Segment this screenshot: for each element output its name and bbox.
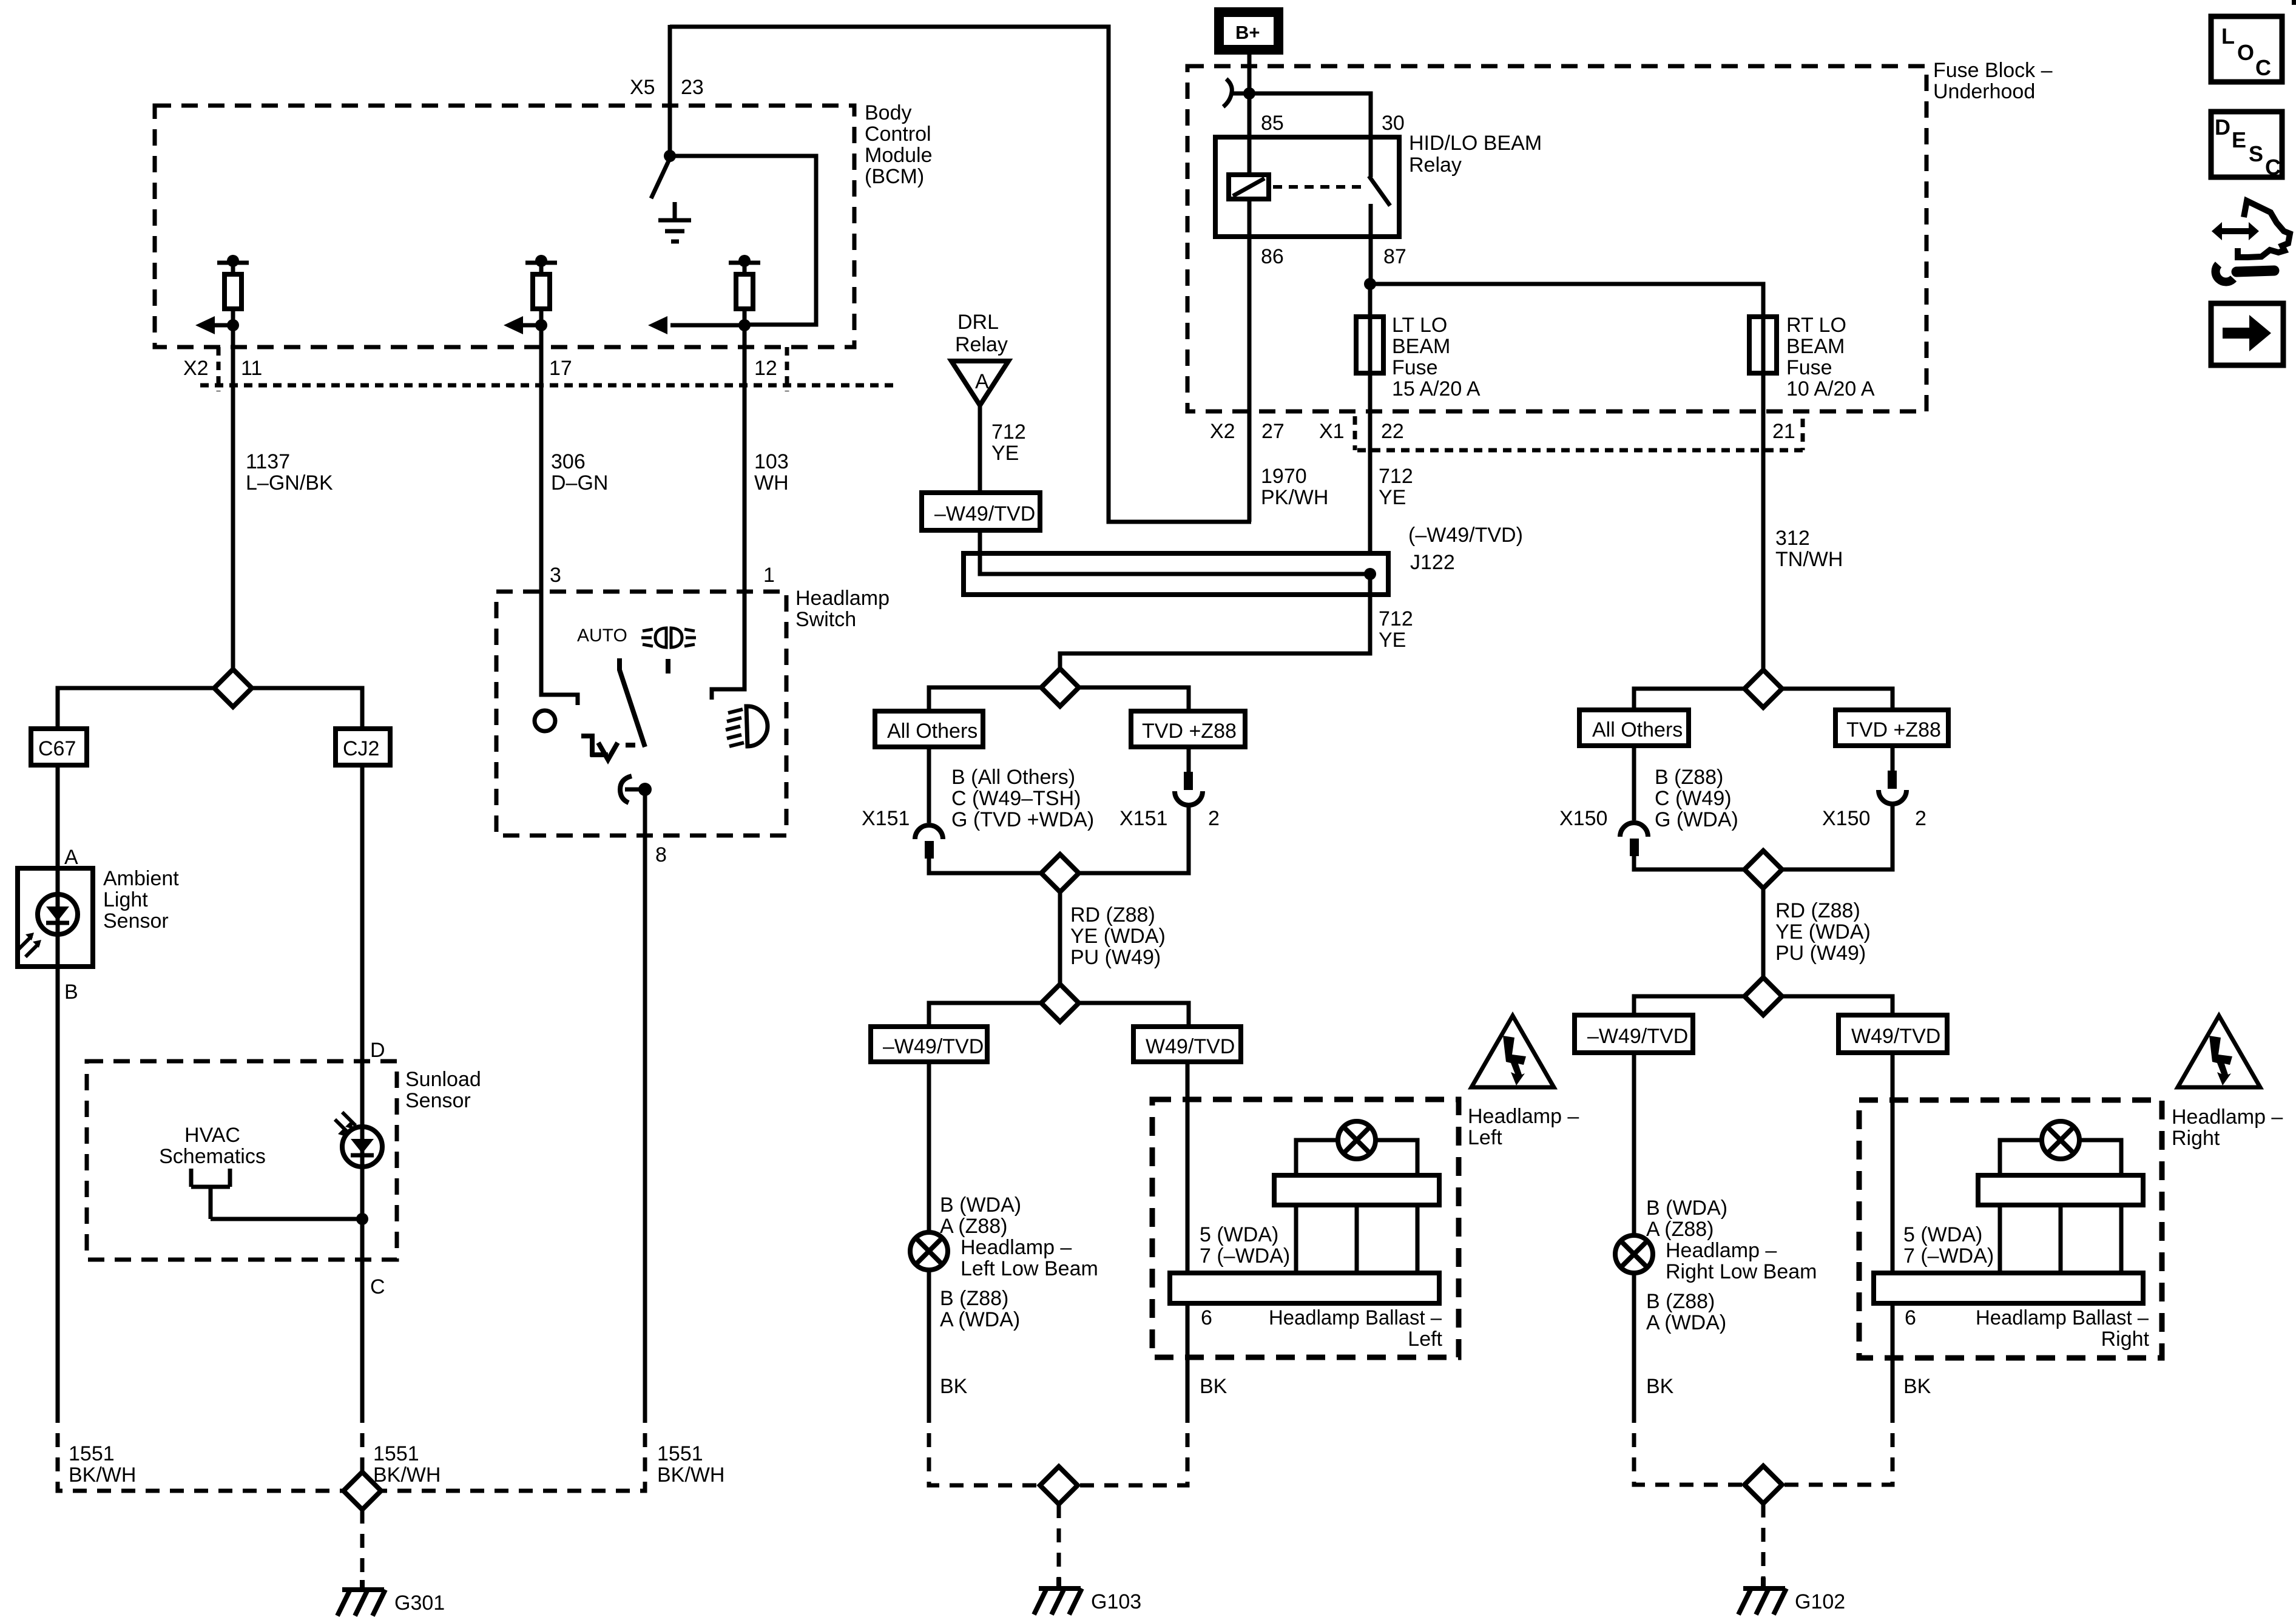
wire ambient sensor down 1551 (56, 967, 60, 1409)
splice diamond left top (1041, 669, 1079, 706)
wire B+ lead (1248, 55, 1252, 137)
svg-text:B+: B+ (1235, 22, 1260, 43)
relay HID/LO BEAM box (1215, 137, 1399, 237)
svg-text:A: A (64, 846, 78, 869)
node 87 branch (1364, 278, 1376, 290)
ballast right top bar (1978, 1175, 2143, 1205)
ballast right legs (2000, 1205, 2121, 1273)
wire diamond to diamond L (1058, 892, 1062, 984)
resistor BCM driver pin 12 (729, 255, 760, 325)
svg-text:PU (W49): PU (W49) (1775, 942, 1866, 965)
lamp headlamp right low beam (1615, 1235, 1653, 1273)
wire 87 to LT fuse (1368, 284, 1373, 317)
svg-text:Sunload: Sunload (405, 1068, 481, 1091)
svg-text:D: D (2215, 115, 2230, 140)
wire LT fuse out 712 (1368, 373, 1373, 575)
connector X151 G inline (915, 747, 1041, 873)
wire DRL 712 YE (978, 405, 982, 493)
splice diamond G102 (1744, 1466, 1782, 1504)
node J122 junction (1364, 568, 1376, 580)
svg-text:C (W49–TSH): C (W49–TSH) (951, 787, 1081, 810)
svg-text:1970: 1970 (1261, 465, 1307, 488)
wire ballast right pin 6 (1891, 1303, 1895, 1409)
wire relay 87 output (1369, 237, 1373, 284)
svg-text:BEAM: BEAM (1786, 335, 1845, 358)
svg-text:X150: X150 (1559, 807, 1607, 830)
svg-text:G301: G301 (394, 1592, 445, 1615)
svg-text:LT LO: LT LO (1392, 314, 1447, 337)
svg-text:27: 27 (1261, 420, 1285, 443)
icon headlamps-on (641, 628, 696, 673)
svg-text:YE (WDA): YE (WDA) (1775, 920, 1871, 944)
svg-text:(BCM): (BCM) (865, 165, 924, 188)
svg-text:G102: G102 (1795, 1590, 1845, 1613)
svg-text:22: 22 (1381, 420, 1404, 443)
wire to C67 (58, 688, 214, 729)
svg-text:306: 306 (551, 450, 586, 473)
svg-text:Headlamp Ballast –: Headlamp Ballast – (1976, 1306, 2149, 1329)
svg-text:BK: BK (1903, 1375, 1931, 1398)
splice diamond left mid (1041, 854, 1079, 892)
svg-text:E: E (2232, 127, 2246, 152)
wire RT fuse out 312 (1761, 373, 1766, 670)
svg-text:1: 1 (763, 564, 775, 587)
svg-text:B: B (64, 981, 78, 1004)
svg-text:C: C (2265, 155, 2281, 180)
resistor BCM driver pin 17 (525, 255, 557, 325)
svg-text:DRL: DRL (957, 311, 999, 334)
fuse LT LO BEAM (1356, 317, 1383, 373)
wire G102 net lamp drop (1634, 1409, 1744, 1485)
wire G301 net ambient drop (58, 1409, 343, 1491)
wire G103 net lamp drop (929, 1409, 1040, 1485)
svg-text:Headlamp –: Headlamp – (1468, 1105, 1579, 1128)
wire G301 net sunload drop (360, 1409, 365, 1472)
ballast left bottom bar (1170, 1273, 1439, 1303)
wire G102 net ballast drop (1782, 1409, 1893, 1485)
svg-text:YE (WDA): YE (WDA) (1070, 925, 1166, 948)
svg-text:BK: BK (1646, 1375, 1674, 1398)
svg-text:87: 87 (1383, 245, 1406, 268)
svg-text:Switch: Switch (795, 608, 856, 631)
icon low beam (726, 706, 768, 746)
resistor BCM driver pin 11 (217, 255, 249, 325)
svg-text:D: D (370, 1039, 385, 1062)
svg-text:Fuse: Fuse (1392, 356, 1438, 379)
svg-text:7 (–WDA): 7 (–WDA) (1200, 1244, 1290, 1268)
svg-text:Left: Left (1408, 1328, 1442, 1351)
wire G301 tail (360, 1510, 365, 1580)
wire -W49/TVD to right low beam lamp (1632, 1053, 1636, 1235)
splice diamond left lower (1041, 984, 1079, 1022)
svg-text:Headlamp –: Headlamp – (961, 1236, 1072, 1259)
ground BCM internal (658, 202, 691, 241)
svg-text:Schematics: Schematics (159, 1145, 266, 1168)
fuse block cavity hook (1223, 79, 1232, 107)
connector X150 G inline (1620, 746, 1744, 869)
icon DESC box (2211, 112, 2282, 180)
svg-text:BK/WH: BK/WH (373, 1463, 441, 1487)
svg-text:X1: X1 (1319, 420, 1345, 443)
svg-text:11: 11 (241, 357, 262, 380)
headlamp switch dashed box (496, 592, 786, 836)
wire to All Others R (1634, 689, 1744, 710)
ballast left lamp (1338, 1121, 1376, 1159)
svg-text:21: 21 (1772, 420, 1795, 443)
svg-text:Right: Right (2172, 1127, 2220, 1150)
box W49/TVD R (1838, 1015, 1947, 1053)
svg-text:1137: 1137 (246, 450, 290, 473)
svg-text:Underhood: Underhood (1933, 80, 2035, 103)
svg-text:AUTO: AUTO (577, 626, 627, 646)
svg-text:S: S (2249, 141, 2263, 166)
ballast right lamp (2042, 1121, 2079, 1159)
headlamp right dashed box (1859, 1100, 2162, 1358)
svg-text:B (Z88): B (Z88) (1655, 766, 1723, 789)
box -W49/TVD R (1575, 1015, 1693, 1053)
svg-text:A (WDA): A (WDA) (940, 1308, 1020, 1331)
svg-text:YE: YE (991, 442, 1019, 465)
box -W49/TVD L (871, 1027, 987, 1062)
node sunload junction (356, 1213, 368, 1225)
wire 712 YE to left headlamp circuit (1060, 574, 1370, 670)
svg-text:Body: Body (865, 101, 912, 124)
svg-text:L: L (2221, 24, 2235, 49)
wire to -W49/TVD R (1634, 996, 1744, 1015)
svg-text:Sensor: Sensor (103, 910, 169, 933)
ambient light sensor box (18, 868, 93, 967)
svg-text:5 (WDA): 5 (WDA) (1903, 1223, 1982, 1246)
svg-text:B (All Others): B (All Others) (951, 766, 1075, 789)
svg-text:712: 712 (1379, 607, 1413, 630)
svg-text:1551: 1551 (657, 1442, 703, 1465)
svg-text:C67: C67 (38, 737, 76, 760)
box W49/TVD L (1133, 1027, 1241, 1062)
ballast left lamp frame (1296, 1140, 1417, 1175)
svg-text:103: 103 (754, 450, 789, 473)
svg-text:23: 23 (681, 76, 704, 99)
splice diamond G301 (343, 1472, 381, 1510)
box -W49/TVD DRL (922, 493, 1040, 530)
wire hook to common (625, 788, 645, 792)
svg-text:A (Z88): A (Z88) (1646, 1218, 1714, 1241)
icon park lamps position (581, 734, 635, 760)
box TVD +Z88 R (1835, 710, 1948, 746)
connector X150 2 inline (1782, 746, 1906, 869)
warning triangle left (1471, 1016, 1554, 1087)
svg-text:312: 312 (1775, 527, 1810, 550)
svg-text:TVD +Z88: TVD +Z88 (1142, 720, 1237, 743)
relay coil-contact dashed link (1273, 185, 1365, 189)
svg-text:G (TVD +WDA): G (TVD +WDA) (951, 808, 1094, 831)
wire ballast left pin 6 (1186, 1303, 1190, 1409)
svg-text:712: 712 (1379, 465, 1413, 488)
wire -W49/TVD to left low beam lamp (927, 1062, 931, 1232)
node pin 11 junction with arrow (195, 316, 239, 334)
svg-text:3: 3 (550, 564, 561, 587)
splice diamond right lower (1744, 977, 1782, 1015)
svg-text:O: O (2237, 40, 2254, 65)
svg-text:–W49/TVD: –W49/TVD (883, 1035, 984, 1058)
svg-text:A: A (975, 370, 989, 393)
switch pin 3 contact (541, 592, 578, 705)
switch common spring hook (620, 776, 632, 803)
svg-text:YE: YE (1379, 629, 1406, 652)
svg-text:TN/WH: TN/WH (1775, 548, 1843, 571)
svg-text:B (WDA): B (WDA) (1646, 1197, 1727, 1220)
svg-text:RT LO: RT LO (1786, 314, 1846, 337)
photodiode sunload (335, 1112, 382, 1167)
svg-text:Right Low Beam: Right Low Beam (1666, 1260, 1817, 1283)
photodiode ambient (18, 868, 78, 967)
svg-text:C (W49): C (W49) (1655, 787, 1732, 810)
svg-text:(–W49/TVD): (–W49/TVD) (1408, 524, 1523, 547)
wire 306 D-GN (539, 325, 544, 592)
svg-text:RD (Z88): RD (Z88) (1070, 903, 1155, 927)
svg-text:RD (Z88): RD (Z88) (1775, 899, 1860, 922)
svg-text:D–GN: D–GN (551, 471, 608, 495)
wire lamp BK down (927, 1270, 931, 1409)
sunload sensor dashed box (87, 1061, 397, 1260)
svg-text:G103: G103 (1091, 1590, 1141, 1613)
svg-text:B (Z88): B (Z88) (940, 1287, 1008, 1310)
svg-text:X5: X5 (630, 76, 655, 99)
svg-text:6: 6 (1201, 1306, 1212, 1329)
wire G103 tail (1057, 1504, 1061, 1578)
svg-text:Relay: Relay (1409, 154, 1462, 177)
splice diamond G103 (1040, 1467, 1078, 1504)
HVAC schematics reference (191, 1169, 362, 1219)
node pin 17 junction with arrow (504, 316, 547, 334)
node pin 12 junction with arrow (648, 316, 751, 334)
svg-text:A (WDA): A (WDA) (1646, 1311, 1726, 1334)
svg-text:12: 12 (754, 357, 777, 380)
warning triangle right (2178, 1016, 2260, 1087)
svg-text:Headlamp: Headlamp (795, 587, 890, 610)
svg-text:Light: Light (103, 888, 148, 911)
splice pack J122 (964, 553, 1388, 595)
svg-text:PK/WH: PK/WH (1261, 486, 1328, 509)
svg-text:30: 30 (1382, 112, 1405, 135)
wire 87 to RT fuse (1370, 284, 1763, 317)
svg-text:Module: Module (865, 144, 933, 167)
ground G102 (1738, 1578, 1845, 1615)
BCM ground switch arm (651, 160, 669, 198)
svg-text:85: 85 (1261, 112, 1284, 135)
wire to W49/TVD L (1079, 1003, 1189, 1027)
svg-text:10 A/20 A: 10 A/20 A (1786, 377, 1875, 400)
svg-text:7 (–WDA): 7 (–WDA) (1903, 1244, 1994, 1268)
svg-text:8: 8 (655, 843, 667, 866)
svg-text:6: 6 (1905, 1306, 1916, 1329)
page corner mark (2292, 0, 2296, 5)
svg-text:1551: 1551 (69, 1442, 115, 1465)
svg-text:X151: X151 (862, 807, 910, 830)
box TVD +Z88 L (1131, 711, 1245, 747)
wire to W49/TVD R (1782, 996, 1893, 1015)
splice diamond sensors feed (214, 669, 252, 707)
node B+ tap (1243, 87, 1255, 100)
svg-text:Relay: Relay (955, 333, 1008, 356)
svg-text:A (Z88): A (Z88) (940, 1215, 1007, 1238)
svg-text:Headlamp –: Headlamp – (1666, 1239, 1777, 1262)
node BCM internal junction (664, 150, 676, 162)
ground G103 (1034, 1578, 1141, 1615)
fuse RT LO BEAM (1749, 317, 1777, 373)
fuse block underhood dashed box (1187, 66, 1926, 411)
svg-text:1551: 1551 (373, 1442, 419, 1465)
svg-text:Fuse: Fuse (1786, 356, 1832, 379)
svg-text:BK/WH: BK/WH (657, 1463, 724, 1487)
ballast left legs (1296, 1205, 1417, 1273)
svg-text:BK: BK (940, 1375, 968, 1398)
relay DRL triangle (951, 361, 1008, 405)
lamp headlamp left low beam (910, 1232, 948, 1270)
svg-text:CJ2: CJ2 (343, 737, 379, 760)
svg-text:Ambient: Ambient (103, 867, 179, 890)
svg-text:X150: X150 (1822, 807, 1870, 830)
wire G301 net switch drop (381, 1409, 645, 1491)
wire lamp BK down R (1632, 1273, 1636, 1409)
svg-text:B (WDA): B (WDA) (940, 1193, 1021, 1217)
svg-text:X2: X2 (1210, 420, 1235, 443)
wire 1137 L-GN/BK (231, 325, 235, 670)
ballast right bottom bar (1874, 1273, 2143, 1303)
box C67 (31, 729, 87, 765)
wire BCM pin 23 drop (668, 25, 672, 157)
svg-text:B (Z88): B (Z88) (1646, 1290, 1715, 1313)
switch pin 1 contact (712, 592, 745, 700)
connector X151 2 inline (1079, 747, 1203, 873)
svg-text:BK: BK (1200, 1375, 1227, 1398)
headlamp left dashed box (1152, 1099, 1459, 1357)
svg-text:All Others: All Others (887, 720, 977, 743)
svg-text:TVD +Z88: TVD +Z88 (1846, 718, 1941, 741)
wire diamond to diamond R (1761, 888, 1766, 977)
node switch common (638, 783, 652, 796)
connector X1 dashed line (1357, 448, 1805, 453)
wire relay 86 output 1970 (1248, 237, 1252, 522)
relay contact (1369, 137, 1390, 237)
wire to -W49/TVD L (929, 1003, 1041, 1027)
box All Others R (1579, 710, 1689, 746)
relay coil (1229, 137, 1269, 237)
svg-text:712: 712 (991, 420, 1026, 444)
connector X1 separator ticks (1355, 416, 1803, 450)
svg-text:BEAM: BEAM (1392, 335, 1450, 358)
svg-text:C: C (370, 1275, 385, 1298)
wire switch pin 8 output (643, 789, 647, 1409)
svg-text:X151: X151 (1119, 807, 1167, 830)
ground G301 (337, 1580, 445, 1616)
switch OFF position O (535, 711, 555, 731)
svg-text:C: C (2255, 55, 2271, 80)
svg-text:5 (WDA): 5 (WDA) (1200, 1223, 1278, 1246)
svg-text:–W49/TVD: –W49/TVD (934, 502, 1035, 525)
wire to All Others L (929, 687, 1041, 711)
svg-text:Control: Control (865, 123, 931, 146)
wire C67 to ambient sensor (56, 765, 60, 868)
wire BCM X5-23 feed (top run to J122 branch) (670, 27, 1251, 522)
wire 103 WH (743, 325, 747, 592)
wire G102 tail (1761, 1504, 1766, 1578)
switch AUTO arm (620, 658, 645, 747)
BCM dashed box (155, 106, 854, 347)
svg-text:Sensor: Sensor (405, 1089, 471, 1112)
connector X2 BCM dashed line (200, 383, 898, 388)
svg-text:BK/WH: BK/WH (69, 1463, 136, 1487)
box All Others L (875, 711, 983, 747)
svg-text:All Others: All Others (1592, 718, 1683, 741)
svg-text:X2: X2 (183, 357, 209, 380)
icon next arrow box (2211, 303, 2283, 365)
wire to CJ2 (252, 688, 362, 729)
splice diamond right top (1744, 670, 1782, 707)
wire G103 net ballast drop (1078, 1409, 1187, 1485)
svg-text:Fuse Block –: Fuse Block – (1933, 59, 2053, 82)
svg-text:Left: Left (1468, 1126, 1502, 1149)
svg-text:G (WDA): G (WDA) (1655, 808, 1738, 831)
splice diamond right mid (1744, 851, 1782, 888)
box CJ2 (336, 729, 390, 765)
svg-text:PU (W49): PU (W49) (1070, 946, 1161, 969)
svg-text:17: 17 (549, 357, 572, 380)
svg-text:J122: J122 (1410, 551, 1455, 574)
svg-text:YE: YE (1379, 486, 1406, 509)
wire DRL to J122 (980, 530, 1366, 574)
svg-text:15 A/20 A: 15 A/20 A (1392, 377, 1481, 400)
svg-text:L–GN/BK: L–GN/BK (246, 471, 333, 495)
wire CJ2 to sunload sensor (360, 765, 365, 1409)
svg-text:W49/TVD: W49/TVD (1146, 1035, 1235, 1058)
connector X2 separator ticks (218, 347, 787, 391)
B+ battery feed symbol (1214, 7, 1283, 55)
svg-text:Headlamp –: Headlamp – (2172, 1106, 2283, 1129)
ballast left top bar (1274, 1175, 1439, 1205)
svg-text:HVAC: HVAC (184, 1124, 240, 1147)
svg-text:WH: WH (754, 471, 789, 495)
wire tap to relay pin 30 (1231, 93, 1371, 137)
svg-text:Right: Right (2101, 1328, 2150, 1351)
wire W49/TVD L into ballast (1186, 1062, 1190, 1273)
svg-text:2: 2 (1208, 807, 1220, 830)
wire to TVD +Z88 L (1079, 687, 1189, 711)
svg-text:–W49/TVD: –W49/TVD (1587, 1025, 1688, 1048)
icon LOC box (2211, 16, 2282, 82)
wire to TVD +Z88 R (1782, 689, 1893, 710)
svg-text:HID/LO BEAM: HID/LO BEAM (1409, 132, 1542, 155)
svg-text:86: 86 (1261, 245, 1284, 268)
wire W49/TVD R into ballast (1891, 1053, 1895, 1273)
svg-text:Headlamp Ballast –: Headlamp Ballast – (1269, 1306, 1442, 1329)
icon connector view with wrench (2210, 201, 2290, 282)
ballast right lamp frame (2000, 1140, 2121, 1175)
svg-text:W49/TVD: W49/TVD (1851, 1025, 1940, 1048)
svg-text:Left Low Beam: Left Low Beam (961, 1257, 1098, 1280)
wire BCM internal to pin 12 driver (670, 156, 816, 325)
svg-text:2: 2 (1915, 807, 1926, 830)
